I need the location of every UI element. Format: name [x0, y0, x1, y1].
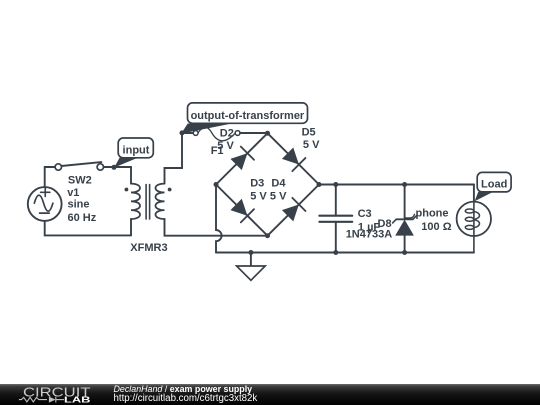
svg-text:F1: F1: [211, 145, 224, 157]
wire bridge edge left-top: [216, 133, 268, 184]
node junction: [333, 182, 338, 187]
svg-text:http://circuitlab.com/c6trtgc3: http://circuitlab.com/c6trtgc3xt82k: [114, 393, 258, 404]
diode D4: [282, 198, 306, 222]
svg-text:SW2: SW2: [68, 175, 92, 187]
svg-text:output-of-transformer: output-of-transformer: [191, 110, 305, 122]
node name phone flag: [405, 214, 415, 218]
flag label output-of-transformer: [181, 103, 307, 134]
zener diode D8: [393, 185, 417, 253]
svg-text:5 V: 5 V: [303, 139, 320, 151]
wire: [45, 221, 131, 236]
node bridge top junction: [265, 131, 270, 136]
transformer XFMR3: [125, 167, 172, 235]
svg-text:input: input: [123, 145, 150, 157]
wire: [240, 132, 268, 134]
wire: [104, 166, 132, 168]
fuse F1: [193, 127, 240, 141]
speaker load phone: [457, 185, 491, 253]
diode D2: [230, 147, 254, 171]
svg-text:XFMR3: XFMR3: [130, 242, 167, 254]
wire: [165, 133, 183, 183]
wire bottom rail: [216, 252, 474, 254]
wire with hop: [216, 185, 222, 253]
node bridge left junction: [214, 182, 219, 187]
switch SW2: [55, 162, 103, 170]
svg-text:D4: D4: [271, 177, 286, 189]
node junction: [402, 182, 407, 187]
wire bridge edge bottom-right: [268, 185, 320, 236]
node bridge right junction: [317, 182, 322, 187]
capacitor C3: [319, 185, 352, 253]
wire bridge edge top-right: [268, 133, 320, 184]
node output-of-transformer junction: [180, 130, 185, 135]
svg-text:60 Hz: 60 Hz: [68, 212, 97, 224]
wire: [45, 167, 55, 187]
svg-text:5 V: 5 V: [270, 191, 287, 203]
wire: [165, 219, 268, 236]
node ground junction: [248, 250, 253, 255]
diode D5: [282, 148, 306, 172]
wire bridge edge left-bottom: [216, 185, 268, 236]
node junction: [333, 250, 338, 255]
svg-text:LAB: LAB: [64, 396, 91, 405]
wire top rail: [319, 184, 474, 186]
ground: [237, 253, 266, 281]
svg-text:100 Ω: 100 Ω: [421, 221, 451, 233]
voltage source V1: [28, 187, 62, 221]
diode D3: [230, 199, 254, 223]
svg-text:phone: phone: [416, 207, 449, 219]
footer bar: [0, 384, 540, 405]
wire: [182, 132, 193, 134]
svg-text:Load: Load: [481, 178, 507, 190]
svg-text:sine: sine: [68, 198, 90, 210]
svg-text:v1: v1: [67, 187, 79, 199]
svg-text:C3: C3: [358, 208, 372, 220]
flag label Load: [475, 172, 512, 201]
svg-text:D3: D3: [250, 177, 264, 189]
svg-text:D2: D2: [220, 127, 234, 139]
footer credit text: [114, 384, 258, 404]
svg-text:5 V: 5 V: [250, 191, 267, 203]
svg-text:D5: D5: [302, 127, 316, 139]
node bridge bottom junction: [265, 233, 270, 238]
flag label input: [114, 138, 153, 168]
circuitlab logo: [19, 386, 91, 405]
svg-text:1N4733A: 1N4733A: [346, 228, 393, 240]
node input junction: [112, 165, 117, 170]
node junction: [402, 250, 407, 255]
